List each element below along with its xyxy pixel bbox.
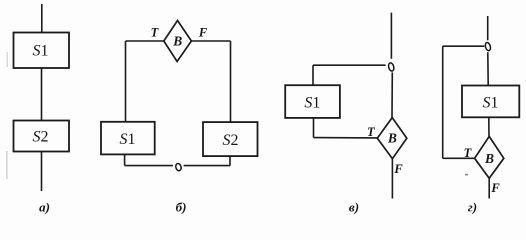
node O (b) xyxy=(175,163,182,172)
wire v-loopback-vertical xyxy=(312,65,314,85)
wire a-mid xyxy=(41,68,43,121)
wire b-S1-down xyxy=(124,154,126,165)
svg-text:S1: S1 xyxy=(120,131,136,148)
wire g-rail-to-diamond xyxy=(443,157,475,159)
box S1 (v) xyxy=(285,85,340,118)
wire b-T-vertical xyxy=(125,41,127,122)
wire b-join-right xyxy=(184,165,230,167)
wire v-S1-down xyxy=(313,118,315,138)
wire a-in xyxy=(41,4,43,33)
node O (g) xyxy=(484,42,491,51)
svg-text:F: F xyxy=(393,162,403,176)
box S1 (g) xyxy=(462,86,519,118)
node O (v) xyxy=(388,62,395,71)
wire g-loopback-horizontal xyxy=(443,45,485,47)
box S1 (a) xyxy=(14,33,70,69)
scan smudge left top xyxy=(7,52,8,67)
svg-text:F: F xyxy=(198,26,208,40)
svg-text:S1: S1 xyxy=(33,43,49,60)
svg-text:S2: S2 xyxy=(33,129,49,146)
box S2 (a) xyxy=(14,121,70,152)
svg-text:S1: S1 xyxy=(304,95,320,112)
svg-text:а): а) xyxy=(39,200,50,215)
box S2 (b) xyxy=(203,122,258,156)
svg-text:B: B xyxy=(387,131,397,146)
svg-text:S1: S1 xyxy=(483,95,499,112)
wire v-in xyxy=(390,13,392,59)
wire b-join-left xyxy=(125,165,173,167)
artifact dot (g) xyxy=(465,174,468,176)
wire g-O-to-box xyxy=(487,52,489,85)
wire g-F-down xyxy=(488,178,490,198)
wire v-O-to-diamond xyxy=(391,72,393,118)
wire b-F-vertical xyxy=(230,41,232,123)
svg-text:F: F xyxy=(490,181,500,195)
wire v-to-diamond xyxy=(314,137,378,139)
wire g-box-to-diamond xyxy=(488,117,490,137)
svg-text:S2: S2 xyxy=(223,132,239,149)
decision B (b) xyxy=(164,21,192,62)
wire g-in xyxy=(487,16,489,40)
wire b-S2-down xyxy=(229,156,231,166)
svg-text:B: B xyxy=(172,34,182,49)
wire v-F-down xyxy=(391,159,393,199)
decision B (v) xyxy=(377,118,407,159)
svg-text:г): г) xyxy=(468,200,477,215)
wire b-F-horizontal xyxy=(191,40,230,42)
box S1 (b) xyxy=(101,122,155,155)
svg-text:B: B xyxy=(484,151,494,166)
svg-text:б): б) xyxy=(176,200,187,215)
decision B (g) xyxy=(475,136,504,178)
wire g-left-rail xyxy=(442,46,444,158)
svg-text:в): в) xyxy=(349,200,359,215)
wire a-out xyxy=(41,152,43,192)
scan smudge left bottom xyxy=(6,151,7,179)
wire v-loopback-horizontal xyxy=(313,64,386,66)
wire b-T-horizontal xyxy=(126,40,164,42)
